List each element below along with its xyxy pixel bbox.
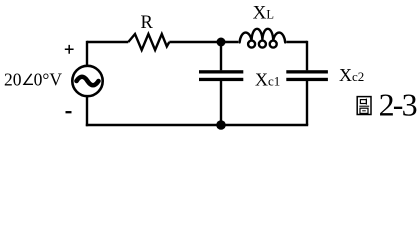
- ac source sine wave: [77, 77, 99, 86]
- capacitor Xc2: [286, 70, 328, 81]
- label R: [141, 13, 154, 33]
- node A junction dot: [217, 38, 226, 47]
- inductor XL: [240, 29, 286, 48]
- angle symbol: [24, 74, 33, 85]
- resistor R: [128, 34, 169, 50]
- wire top-left segment: [87, 41, 128, 43]
- wire right branch lower: [306, 81, 308, 125]
- svg-text:X: X: [253, 3, 267, 24]
- capacitor Xc1: [199, 70, 243, 81]
- label XL: [253, 3, 274, 24]
- svg-text:X: X: [255, 70, 268, 90]
- svg-text:c1: c1: [268, 74, 280, 89]
- wire right branch upper: [306, 41, 308, 71]
- label Xc2: [339, 65, 364, 85]
- label Xc1: [255, 70, 280, 90]
- wire inductor to top-right corner: [286, 41, 307, 43]
- wire capacitor Xc1 to node B: [220, 81, 222, 125]
- plus polarity mark: [65, 45, 74, 54]
- svg-text:X: X: [339, 65, 352, 85]
- node B junction dot: [216, 120, 226, 130]
- svg-text:L: L: [266, 8, 274, 22]
- wire left branch lower: [86, 97, 88, 127]
- svg-text:0°V: 0°V: [34, 70, 63, 90]
- caption text 2-3: [379, 87, 417, 123]
- wire resistor to node A: [169, 41, 221, 43]
- source value 20 angle 0 V: [4, 70, 62, 90]
- svg-text:20: 20: [4, 70, 22, 90]
- svg-text:2-3: 2-3: [379, 87, 417, 123]
- bottom wire: [86, 124, 308, 126]
- minus polarity mark: [66, 111, 72, 113]
- wire node A to capacitor Xc1: [220, 42, 222, 70]
- ac source V1 circle: [72, 66, 102, 96]
- svg-text:c2: c2: [352, 69, 364, 84]
- caption figure box glyph: [357, 97, 371, 115]
- wire left branch upper: [86, 41, 88, 65]
- wire node A to inductor: [221, 41, 238, 43]
- svg-text:R: R: [141, 13, 154, 33]
